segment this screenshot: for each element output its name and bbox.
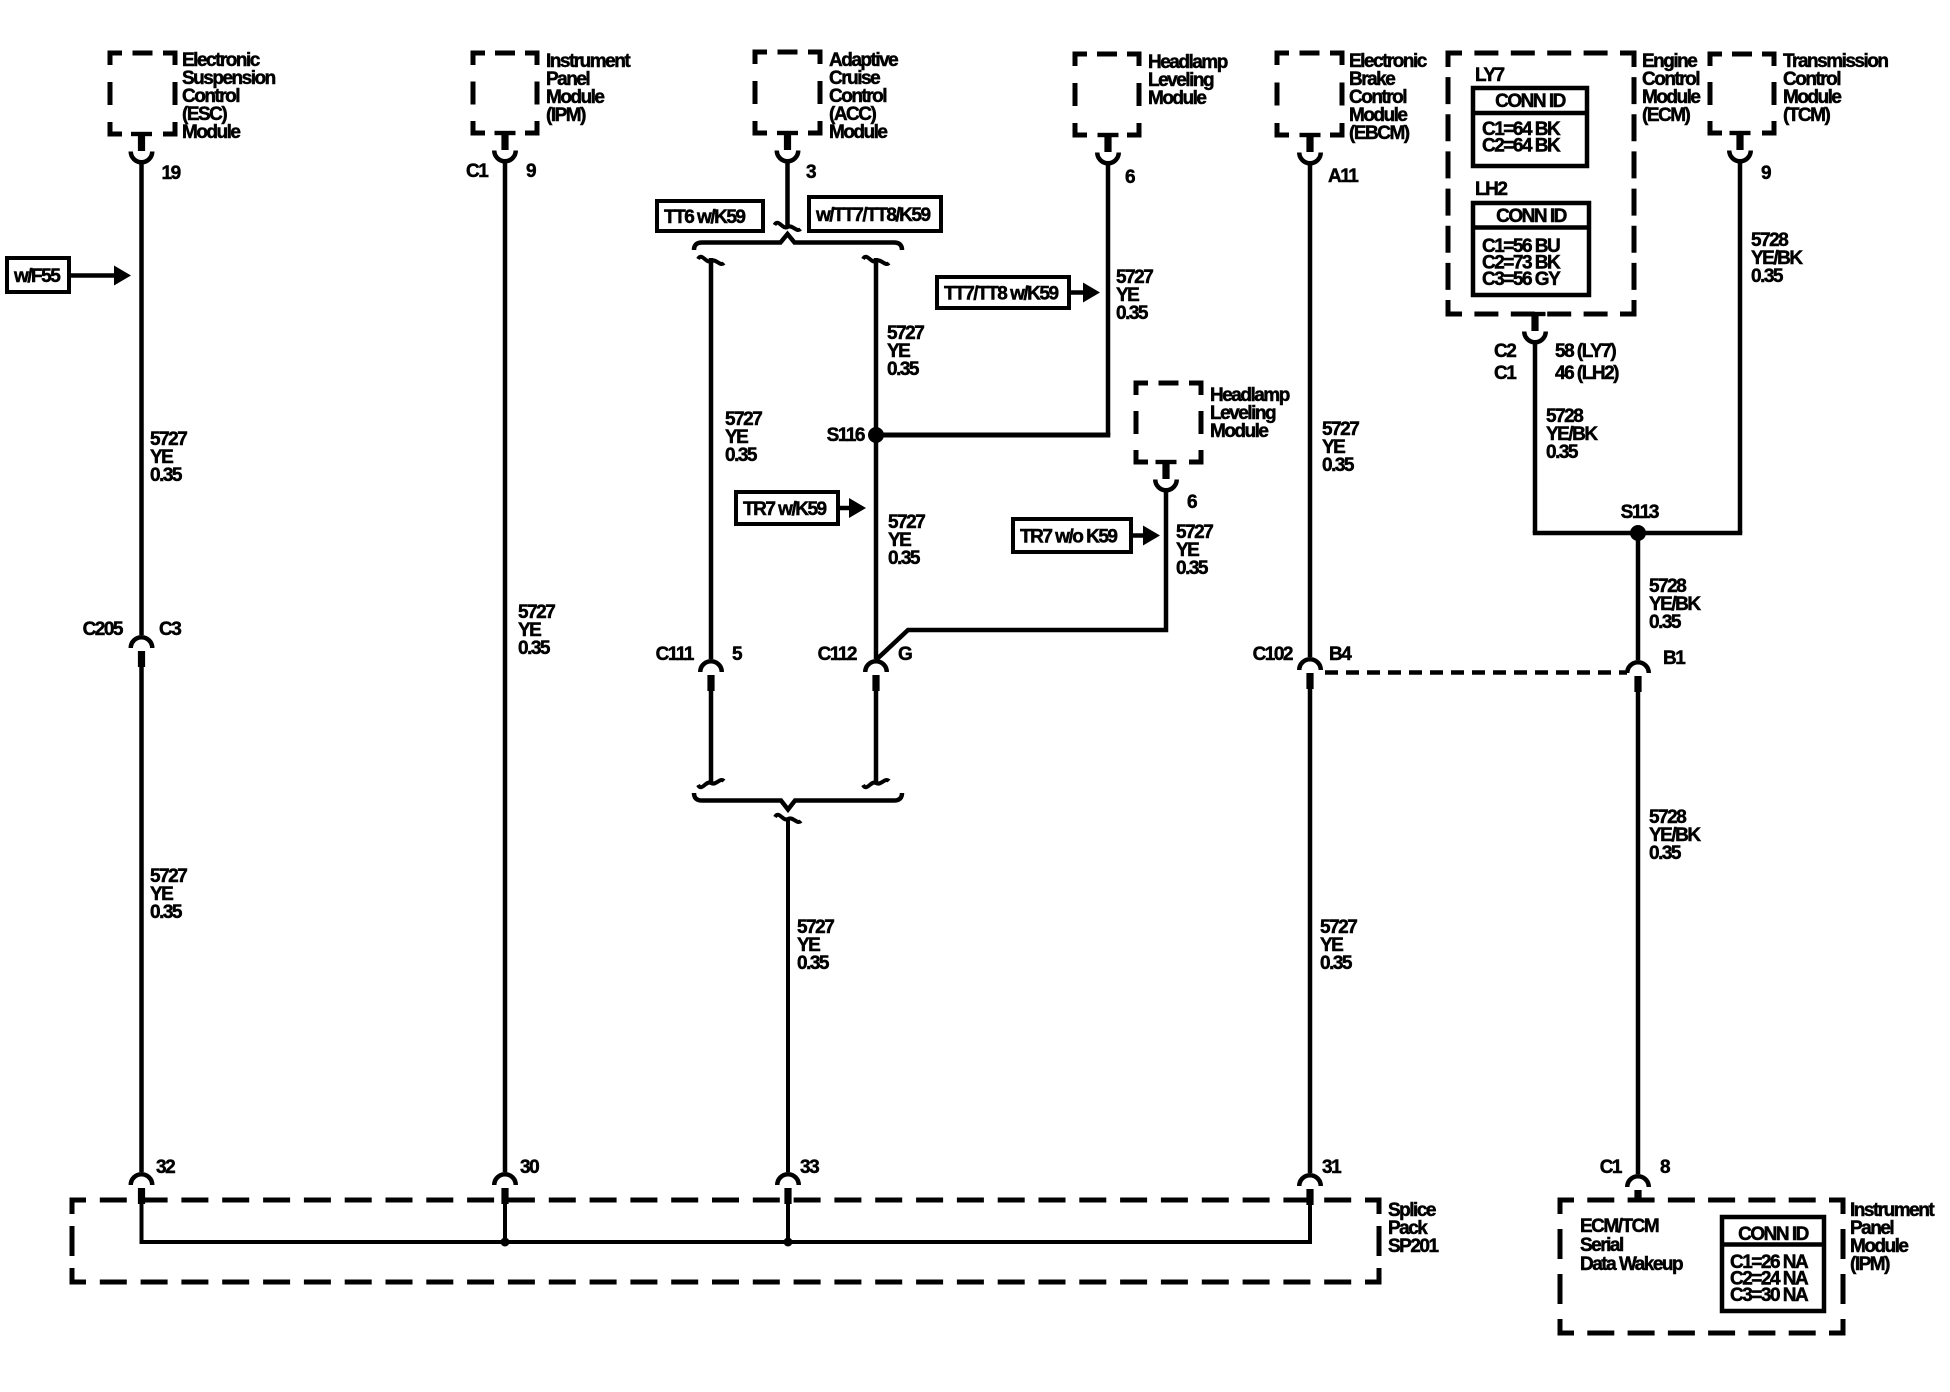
IPM module label [546, 51, 631, 126]
svg-text:6: 6 [1187, 492, 1197, 513]
harness split brace (top) [694, 234, 902, 250]
bus junction at pin 33 drop [784, 1238, 793, 1247]
svg-text:0.35: 0.35 [150, 465, 183, 486]
wire below C111 [698, 691, 724, 787]
wire 5727 YE from EBCM pin A11 down to C102 [1308, 162, 1313, 657]
svg-text:TR7 w/o K59: TR7 w/o K59 [1020, 527, 1117, 548]
svg-text:0.35: 0.35 [1320, 953, 1353, 974]
ECM/TCM Serial Data Wakeup label [1580, 1216, 1683, 1275]
svg-text:A11: A11 [1328, 166, 1359, 187]
svg-text:9: 9 [1761, 163, 1771, 184]
inline connector C205 / C3 [83, 619, 182, 667]
wire 5728 YE/BK from TCM pin 9 down to S113 [1738, 160, 1743, 533]
TCM module label [1783, 51, 1888, 126]
svg-text:Module: Module [182, 122, 240, 143]
label 5727 YE 0.35 on headlamp middle wire [1176, 522, 1213, 579]
label 5727 YE 0.35 on IPM wire [518, 602, 555, 659]
EBCM module label [1349, 51, 1428, 144]
svg-text:C1: C1 [1600, 1157, 1623, 1178]
wire 5728 YE/BK from B1 down to IPM C1 pin 8 [1636, 692, 1641, 1174]
module TCM (Transmission Control Module) dashed box [1710, 54, 1774, 133]
LH2 engine option label [1475, 179, 1507, 200]
wire from S116 to headlamp leveling (top) wire [876, 433, 1110, 438]
wire 5728 YE/BK from S113 down to B1 [1636, 533, 1641, 660]
svg-text:C112: C112 [818, 644, 857, 665]
splice pack internal bus wire [140, 1204, 1313, 1242]
inline connector splice pin 30 [494, 1157, 539, 1204]
connector pin 6 at Headlamp Leveling middle [1155, 460, 1197, 513]
svg-text:0.35: 0.35 [887, 359, 920, 380]
ECM module label [1642, 51, 1700, 126]
label 5728 YE/BK 0.35 on TCM wire [1751, 230, 1803, 287]
svg-text:C2=64 BK: C2=64 BK [1482, 136, 1561, 157]
ESC module label [182, 50, 276, 143]
connector pin 3 at ACC [777, 131, 816, 183]
arrow from TT7/TT8 w/K59 to headlamp wire [1069, 283, 1100, 303]
svg-text:58 (LY7): 58 (LY7) [1555, 341, 1616, 362]
arrow from w/F55 to ESC wire [69, 266, 131, 286]
svg-text:C2: C2 [1494, 341, 1516, 362]
connector pin 9 at TCM [1729, 131, 1771, 184]
wire 5727 YE from headlamp leveling (top) pin 6 down to S116 junction line [1106, 162, 1111, 435]
svg-text:Module: Module [829, 122, 887, 143]
svg-text:Module: Module [1148, 88, 1206, 109]
svg-text:0.35: 0.35 [725, 445, 758, 466]
LY7 CONN ID table [1473, 88, 1587, 166]
connector pin 6 at Headlamp Leveling [1097, 133, 1135, 188]
inline connector splice pin 33 [777, 1157, 819, 1204]
svg-text:G: G [898, 644, 912, 665]
svg-text:C3=30 NA: C3=30 NA [1730, 1285, 1809, 1306]
svg-text:0.35: 0.35 [1546, 442, 1579, 463]
wire from S116 down to C112 [874, 435, 879, 659]
svg-text:6: 6 [1125, 167, 1135, 188]
horizontal wire joining ECM and TCM at S113 [1533, 531, 1743, 536]
svg-text:3: 3 [806, 162, 816, 183]
svg-text:0.35: 0.35 [1176, 558, 1209, 579]
svg-text:0.35: 0.35 [888, 548, 921, 569]
wire 5728 YE/BK from ECM connector down to S113 [1533, 342, 1538, 533]
svg-text:C3=56 GY: C3=56 GY [1482, 269, 1561, 290]
arrow from TR7 w/K59 to right branch wire [838, 498, 866, 518]
svg-text:(IPM): (IPM) [546, 105, 586, 126]
svg-text:0.35: 0.35 [1322, 455, 1355, 476]
module Headlamp Leveling (top) dashed box [1075, 54, 1139, 135]
svg-text:C1: C1 [1494, 363, 1517, 384]
connector pin A11 at EBCM [1299, 133, 1359, 187]
connector pin 19 at ESC [131, 132, 181, 184]
ACC module label [829, 50, 898, 143]
svg-text:0.35: 0.35 [1649, 612, 1682, 633]
dashed link wire between B4 and B1 [1325, 670, 1627, 675]
inline connector C102 pin B4 [1253, 644, 1353, 689]
wire 5727 YE from headlamp leveling (middle) pin 6 to C112 [877, 490, 1167, 660]
svg-text:0.35: 0.35 [1751, 266, 1784, 287]
svg-text:C111: C111 [656, 644, 695, 665]
svg-text:LY7: LY7 [1475, 65, 1505, 86]
svg-text:0.35: 0.35 [518, 638, 551, 659]
svg-text:Serial: Serial [1580, 1235, 1623, 1256]
inline connector C1 pin 8 at IPM wakeup [1600, 1157, 1670, 1202]
svg-text:19: 19 [162, 163, 181, 184]
label 5727 YE 0.35 on left branch [725, 409, 762, 466]
IPM ECM/TCM Serial Data Wakeup dashed box [1560, 1200, 1843, 1333]
w/TT7/TT8/K59 option box [809, 197, 941, 231]
svg-text:(IPM): (IPM) [1850, 1254, 1890, 1275]
wire below C112 [863, 691, 889, 787]
svg-text:TT6 w/K59: TT6 w/K59 [664, 207, 745, 228]
inline connector splice pin 31 [1299, 1157, 1342, 1205]
svg-text:0.35: 0.35 [797, 953, 830, 974]
svg-text:C3: C3 [159, 619, 181, 640]
label 5727 YE 0.35 on EBCM wire [1322, 419, 1359, 476]
wire from ACC pin 3 down to harness split [775, 160, 801, 230]
label 5728 YE/BK 0.35 below B1 [1649, 807, 1701, 864]
merged wire 5727 YE down to splice pin 33 [775, 815, 801, 1172]
right option branch wire (w/TT7/TT8/K59) down to S116 [863, 257, 889, 435]
label 5727 YE 0.35 lower ESC wire [150, 866, 187, 923]
svg-text:LH2: LH2 [1475, 179, 1507, 200]
svg-text:0.35: 0.35 [1649, 843, 1682, 864]
wire 5727 YE from C102 down to splice pin 31 [1308, 689, 1313, 1173]
module Headlamp Leveling (middle) dashed box [1136, 383, 1201, 462]
label 5727 YE 0.35 below S116 [888, 512, 925, 569]
label 5727 YE 0.35 lower EBCM wire [1320, 917, 1357, 974]
svg-text:8: 8 [1660, 1157, 1670, 1178]
Headlamp Leveling (middle) module label [1210, 385, 1290, 442]
svg-text:46 (LH2): 46 (LH2) [1555, 363, 1619, 384]
svg-text:w/TT7/TT8/K59: w/TT7/TT8/K59 [815, 205, 930, 226]
module IPM (Instrument Panel Module) dashed box [473, 53, 537, 133]
svg-text:(EBCM): (EBCM) [1349, 123, 1410, 144]
inline connector splice pin 32 [131, 1157, 175, 1204]
TT7/TT8 w/K59 option box [937, 277, 1069, 308]
svg-text:C102: C102 [1253, 644, 1293, 665]
wire 5727 YE from ESC pin 19 down to C205 [139, 161, 144, 635]
svg-text:TR7 w/K59: TR7 w/K59 [743, 499, 827, 520]
splice pack SP201 dashed box [72, 1200, 1379, 1282]
LH2 CONN ID table [1473, 203, 1589, 295]
IPM CONN ID table [1722, 1217, 1824, 1311]
svg-text:0.35: 0.35 [150, 902, 183, 923]
TR7 w/K59 option box [736, 492, 838, 524]
label 5727 YE 0.35 on headlamp top wire [1116, 267, 1153, 324]
svg-text:Module: Module [1210, 421, 1268, 442]
label 5727 YE 0.35 on ESC wire [150, 429, 187, 486]
w/F55 option box [7, 258, 69, 292]
wire 5727 YE from C205 down to splice pin 32 [139, 667, 144, 1172]
label 5727 YE 0.35 on right branch above S116 [887, 323, 924, 380]
svg-text:CONN ID: CONN ID [1495, 91, 1566, 112]
svg-text:(TCM): (TCM) [1783, 105, 1830, 126]
svg-text:9: 9 [526, 161, 536, 182]
svg-text:S116: S116 [827, 425, 865, 446]
left option branch wire (TT6 w/K59) down to C111 [698, 257, 724, 659]
svg-text:32: 32 [156, 1157, 175, 1178]
connector C1 pin 9 at IPM [466, 131, 536, 182]
module EBCM (Electronic Brake Control Module) dashed box [1277, 53, 1342, 135]
TR7 w/o K59 option box [1013, 519, 1131, 552]
svg-text:B4: B4 [1329, 644, 1352, 665]
svg-text:C205: C205 [83, 619, 124, 640]
svg-text:5: 5 [732, 644, 743, 665]
svg-text:ECM/TCM: ECM/TCM [1580, 1216, 1659, 1237]
inline connector C111 pin 5 [656, 644, 743, 691]
arrow from TR7 w/o K59 to headlamp middle wire [1131, 526, 1160, 546]
svg-text:Data Wakeup: Data Wakeup [1580, 1254, 1683, 1275]
harness merge brace (bottom) [694, 793, 902, 810]
svg-text:SP201: SP201 [1388, 1236, 1439, 1257]
svg-text:(ECM): (ECM) [1642, 105, 1691, 126]
bus junction at pin 30 drop [501, 1238, 510, 1247]
module ECM (Engine Control Module) dashed box [1448, 53, 1634, 314]
splice pack SP201 label [1388, 1200, 1439, 1257]
label 5727 YE 0.35 on merged wire [797, 917, 834, 974]
TT6 w/K59 option box [657, 201, 763, 231]
svg-text:C1: C1 [466, 161, 489, 182]
Instrument Panel Module (IPM) label at wakeup box [1850, 1200, 1935, 1275]
inline connector B1 [1627, 648, 1686, 692]
svg-text:CONN ID: CONN ID [1738, 1224, 1809, 1245]
LY7 engine option label [1475, 65, 1505, 86]
svg-text:0.35: 0.35 [1116, 303, 1149, 324]
splice S113 [1621, 502, 1659, 541]
Headlamp Leveling module label [1148, 52, 1228, 109]
connector C2/C1 pins 58(LY7)/46(LH2) at ECM [1494, 312, 1619, 384]
svg-text:S113: S113 [1621, 502, 1659, 523]
inline connector C112 pin G [818, 644, 912, 691]
label 5728 YE/BK 0.35 above B1 [1649, 576, 1701, 633]
svg-text:TT7/TT8 w/K59: TT7/TT8 w/K59 [944, 284, 1058, 305]
svg-text:CONN ID: CONN ID [1496, 206, 1567, 227]
module ACC (Adaptive Cruise Control) dashed box [755, 52, 820, 133]
svg-text:B1: B1 [1663, 648, 1686, 669]
wire 5727 YE from IPM pin 9 down to splice pin 30 [503, 160, 508, 1172]
svg-text:33: 33 [800, 1157, 819, 1178]
label 5728 YE/BK 0.35 on ECM wire [1546, 406, 1598, 463]
module ESC (Electronic Suspension Control) dashed box [110, 53, 175, 134]
splice S116 [827, 425, 884, 446]
svg-text:w/F55: w/F55 [13, 266, 61, 287]
svg-text:31: 31 [1322, 1157, 1342, 1178]
svg-text:30: 30 [520, 1157, 539, 1178]
